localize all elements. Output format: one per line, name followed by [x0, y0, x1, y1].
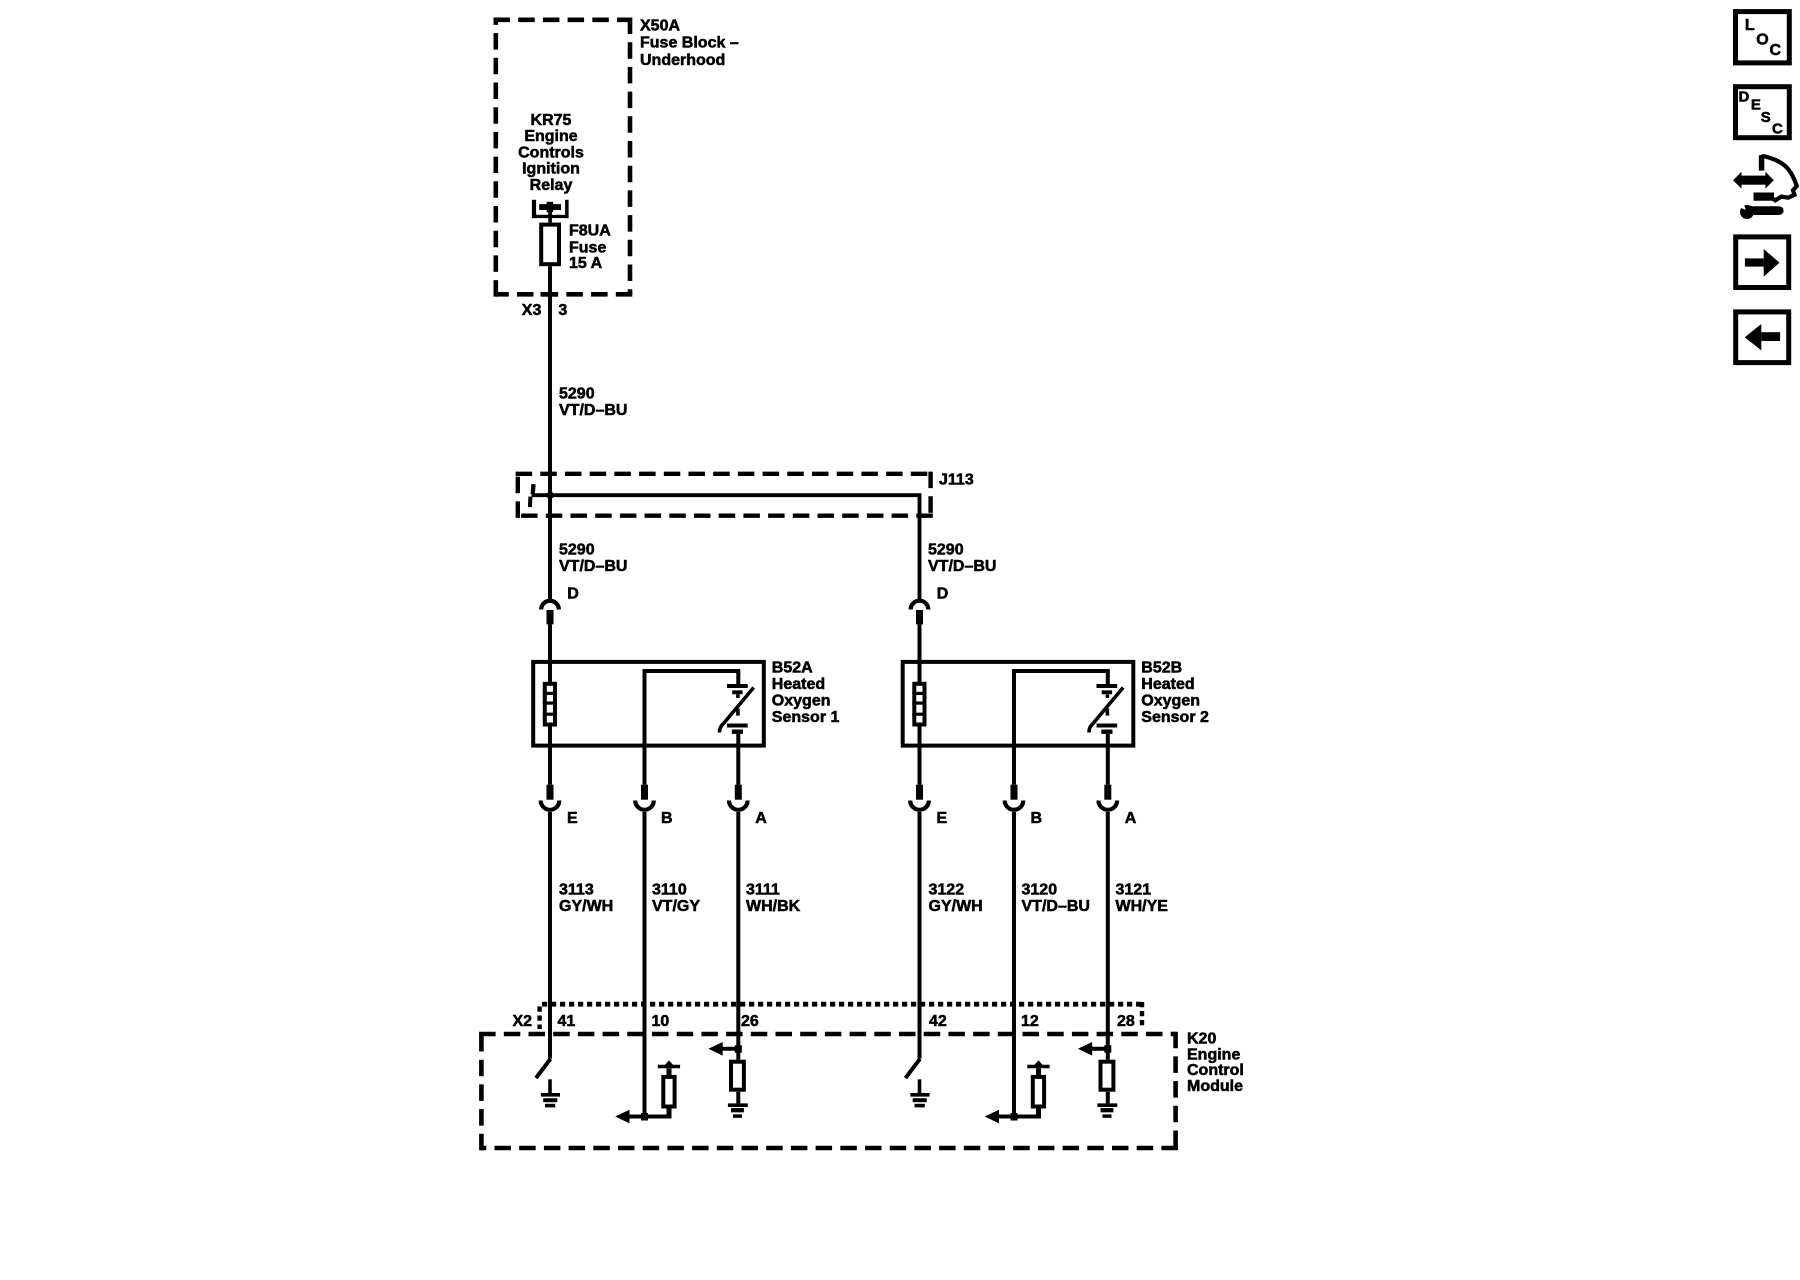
hand tools icon [1733, 155, 1797, 219]
svg-text:Relay: Relay [530, 177, 573, 194]
wire A below sensor cell B52A [736, 734, 740, 785]
svg-text:VT/GY: VT/GY [652, 898, 700, 915]
svg-text:3113: 3113 [559, 881, 594, 898]
fuse F8UA [541, 225, 559, 265]
svg-text:3120: 3120 [1022, 881, 1058, 898]
svg-text:26: 26 [741, 1013, 759, 1030]
svg-text:F8UA: F8UA [569, 223, 611, 240]
pin 10 internal: bus line with left arrow [615, 1110, 671, 1124]
relay KR75 contact symbol [532, 200, 569, 223]
svg-text:Fuse Block –: Fuse Block – [640, 35, 739, 52]
svg-text:B: B [661, 810, 673, 827]
connector D (right) [911, 585, 949, 624]
svg-text:GY/WH: GY/WH [929, 898, 983, 915]
svg-text:X3: X3 [522, 302, 542, 319]
wire E through box (right) [918, 663, 922, 785]
svg-text:B: B [1031, 810, 1043, 827]
label F8UA Fuse 15 A [569, 223, 611, 273]
switch pin 41 [536, 1059, 551, 1078]
svg-text:Oxygen: Oxygen [772, 693, 831, 710]
previous page arrow icon [1736, 312, 1789, 363]
wire 3110 B to ECM pin 10 [643, 812, 647, 1117]
svg-text:B52A: B52A [772, 660, 813, 677]
svg-text:5290: 5290 [559, 386, 595, 403]
svg-text:VT/D–BU: VT/D–BU [559, 558, 627, 575]
heater element B52A [543, 684, 557, 725]
svg-text:28: 28 [1117, 1013, 1135, 1030]
wire 3120 B to ECM pin 12 [1012, 812, 1016, 1117]
svg-text:5290: 5290 [559, 542, 595, 559]
svg-text:D: D [567, 585, 579, 602]
connector D (left) [541, 585, 579, 624]
svg-text:15 A: 15 A [569, 255, 603, 272]
label X50A Fuse Block - Underhood [640, 18, 739, 70]
svg-text:L: L [1745, 17, 1755, 34]
wire 3111 A to ECM pin 26 [736, 812, 740, 1060]
wire label 5290 VT/D-BU (right branch) [928, 542, 996, 576]
wire label 3121 WH/YE [1116, 881, 1169, 915]
ground pin 42 [910, 1079, 929, 1105]
svg-text:Controls: Controls [518, 144, 584, 161]
svg-text:O: O [1756, 32, 1768, 49]
svg-text:A: A [1125, 810, 1137, 827]
voltage reference pin 12 [1027, 1060, 1049, 1116]
svg-text:3122: 3122 [929, 881, 965, 898]
pin 26 internal: left arrow stub [708, 1042, 741, 1056]
connector X2 dotted line [542, 1002, 1141, 1007]
wire label 3113 GY/WH [559, 881, 613, 915]
wire label 3110 VT/GY [652, 881, 700, 915]
svg-text:5290: 5290 [928, 542, 964, 559]
svg-text:Engine: Engine [1187, 1047, 1240, 1064]
svg-text:X50A: X50A [640, 18, 680, 35]
connector A (right) [1099, 785, 1137, 827]
svg-text:3110: 3110 [652, 881, 687, 898]
sensor cell B52A [719, 686, 753, 733]
ground pin 28 [1097, 1092, 1117, 1116]
svg-text:WH/YE: WH/YE [1116, 898, 1169, 915]
svg-text:E: E [937, 810, 948, 827]
svg-text:VT/D–BU: VT/D–BU [1022, 898, 1090, 915]
svg-text:Sensor 2: Sensor 2 [1141, 709, 1209, 726]
ground pin 26 [728, 1092, 748, 1116]
svg-text:D: D [937, 585, 949, 602]
svg-text:Heated: Heated [1141, 676, 1194, 693]
wire B inside box B52A [645, 671, 739, 746]
junction dot J113 [547, 492, 554, 499]
wire A below sensor cell B52B [1106, 734, 1110, 785]
heated oxygen sensor B52B box [903, 662, 1134, 746]
svg-text:C: C [1770, 42, 1782, 59]
svg-text:42: 42 [929, 1013, 947, 1030]
svg-text:12: 12 [1021, 1013, 1039, 1030]
label K20 Engine Control Module [1187, 1031, 1244, 1095]
splice clip mark [531, 484, 536, 494]
connector E (left) [541, 785, 578, 827]
LOC icon box [1736, 12, 1790, 63]
wire label 5290 VT/D-BU (left branch) [559, 542, 627, 576]
switch pin 42 [906, 1059, 921, 1078]
connector A (left) [729, 785, 767, 827]
svg-text:VT/D–BU: VT/D–BU [559, 402, 627, 419]
svg-text:Control: Control [1187, 1062, 1244, 1079]
wire label 5290 VT/D-BU (top) [559, 386, 627, 420]
svg-text:K20: K20 [1187, 1031, 1216, 1048]
ground pin 41 [541, 1079, 560, 1105]
svg-text:C: C [1772, 121, 1783, 138]
svg-text:B52B: B52B [1141, 660, 1182, 677]
svg-text:S: S [1761, 109, 1771, 126]
label B52B Heated Oxygen Sensor 2 [1141, 660, 1209, 727]
wire B below box B52B [1012, 746, 1016, 785]
svg-text:VT/D–BU: VT/D–BU [928, 558, 996, 575]
svg-text:A: A [755, 810, 767, 827]
wire label 3122 GY/WH [929, 881, 983, 915]
heater element B52B [912, 684, 926, 725]
wire from fuse through X3 to J113 junction and connector D [548, 266, 552, 599]
svg-text:3121: 3121 [1116, 881, 1152, 898]
relay KR75 label [518, 112, 584, 194]
connector B (left) [635, 785, 672, 827]
wire D to sensor box (left) [548, 624, 552, 663]
svg-text:Heated: Heated [772, 676, 825, 693]
wire label 3120 VT/D-BU [1022, 881, 1090, 915]
svg-text:Underhood: Underhood [640, 52, 725, 69]
fuse block X50A dashed box [494, 17, 631, 22]
resistor pin 26 [731, 1062, 744, 1090]
svg-text:41: 41 [558, 1013, 576, 1030]
wire D to sensor box (right) [918, 624, 922, 663]
resistor pin 12 [1033, 1077, 1044, 1107]
svg-text:Oxygen: Oxygen [1141, 693, 1200, 710]
svg-text:E: E [567, 810, 578, 827]
svg-text:D: D [1739, 88, 1750, 105]
sensor cell B52B [1089, 686, 1123, 733]
wire E through box (left) [548, 663, 552, 785]
resistor pin 10 [663, 1077, 674, 1107]
X3 crossing tick [541, 292, 559, 297]
svg-text:3111: 3111 [746, 881, 780, 898]
wire 3122 E to ECM pin 42 [918, 812, 922, 1059]
svg-text:J113: J113 [939, 472, 974, 489]
connector X2 right tick [1140, 1002, 1144, 1029]
next page arrow icon [1736, 237, 1789, 288]
svg-text:KR75: KR75 [531, 112, 572, 129]
svg-text:3: 3 [558, 302, 567, 319]
connector X2 left tick [537, 1007, 541, 1030]
svg-text:WH/BK: WH/BK [746, 898, 801, 915]
DESC icon box [1736, 87, 1790, 138]
svg-text:GY/WH: GY/WH [559, 898, 613, 915]
wire splice branch to right leg [532, 495, 920, 599]
svg-text:Module: Module [1187, 1078, 1243, 1095]
heated oxygen sensor B52A box [533, 662, 764, 746]
connector E (right) [910, 785, 947, 827]
engine control module K20 dashed box [479, 1032, 1176, 1037]
wire 3121 A to ECM pin 28 [1106, 812, 1110, 1060]
connector B (right) [1005, 785, 1042, 827]
voltage reference pin 10 [658, 1060, 680, 1116]
svg-text:X2: X2 [513, 1013, 533, 1030]
svg-text:10: 10 [652, 1013, 670, 1030]
svg-text:E: E [1751, 97, 1761, 114]
wire 3113 E to ECM pin 41 [548, 812, 552, 1059]
wire B below box B52A [643, 746, 647, 785]
svg-text:Engine: Engine [524, 128, 577, 145]
svg-text:Sensor 1: Sensor 1 [772, 709, 840, 726]
splice pack J113 dashed box [516, 472, 931, 476]
svg-text:Ignition: Ignition [522, 161, 580, 178]
label B52A Heated Oxygen Sensor 1 [772, 660, 840, 727]
wire label 3111 WH/BK [746, 881, 801, 915]
pin 28 internal: left arrow stub [1078, 1042, 1111, 1056]
wire B inside box B52B [1014, 671, 1108, 746]
pin 12 internal: bus line with left arrow [985, 1110, 1041, 1124]
svg-text:Fuse: Fuse [569, 239, 606, 256]
resistor pin 28 [1101, 1062, 1114, 1090]
